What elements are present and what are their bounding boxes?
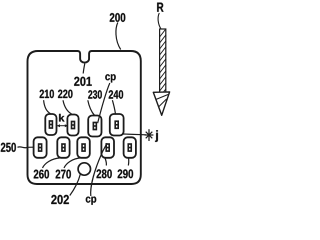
terminal pad 220 — [67, 115, 78, 136]
terminal pad 230 — [88, 116, 101, 137]
arrow R shaft with hatching — [160, 29, 166, 97]
leader for 210 — [44, 100, 51, 114]
label 200 — [110, 13, 126, 22]
line to point j — [123, 133, 146, 136]
terminal pad 280 — [101, 137, 114, 158]
leader for 250 — [18, 146, 34, 149]
label R — [157, 3, 163, 12]
terminal pad 290 — [124, 137, 136, 158]
label 230 — [88, 90, 102, 99]
star marker j — [145, 129, 154, 141]
label cp top — [105, 74, 115, 82]
terminal pad 260 — [57, 137, 69, 158]
leader for cp top — [98, 83, 110, 123]
label 240 — [109, 90, 123, 99]
hole 202 circle — [78, 163, 90, 175]
label 201 — [74, 77, 92, 86]
label cp bottom — [86, 197, 96, 205]
dimension arrow k between pads 210 and 220 — [57, 124, 68, 127]
label 290 — [118, 169, 133, 178]
leader for 280 — [105, 158, 106, 166]
label 202 — [51, 195, 69, 204]
terminal pad 270 — [77, 137, 90, 158]
leader for 220 — [63, 100, 72, 114]
label 270 — [56, 170, 71, 179]
leader for 201 — [83, 64, 85, 74]
leader for 230 — [88, 100, 95, 115]
leader for 270 — [64, 158, 81, 168]
label 250 — [1, 143, 16, 152]
leader for R — [158, 13, 161, 30]
leader for 240 — [112, 100, 115, 113]
label 220 — [58, 90, 73, 99]
leader for cp bottom — [91, 143, 107, 196]
label 280 — [97, 169, 112, 178]
leader for 202 — [70, 174, 81, 195]
label 260 — [34, 170, 49, 179]
label k — [59, 114, 64, 122]
leader for 200 — [116, 23, 121, 50]
arrow R head — [153, 92, 169, 115]
leader for 260 — [43, 158, 61, 168]
terminal pad 240 — [110, 114, 124, 136]
cartridge body 200 outline with notch 201 — [28, 51, 141, 184]
label 210 — [40, 90, 54, 99]
terminal pad 250 — [34, 137, 47, 158]
label j — [155, 130, 158, 142]
terminal pad 210 — [45, 114, 56, 135]
leader for 290 — [127, 158, 129, 166]
